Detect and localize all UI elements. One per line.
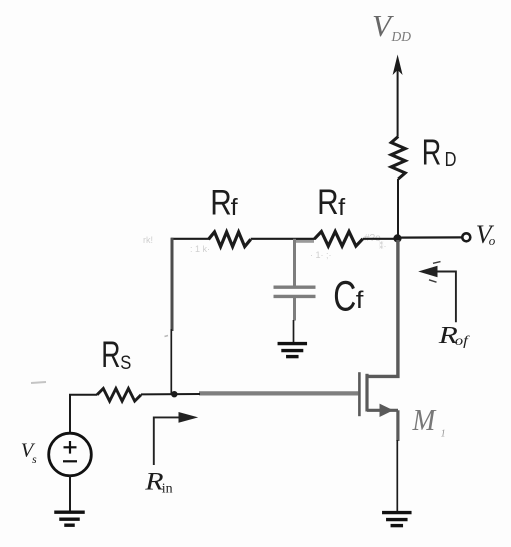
svg-text:· 1· ;·: · 1· ;· bbox=[310, 250, 332, 260]
svg-text:rk!: rk! bbox=[143, 235, 153, 245]
svg-text:R: R bbox=[101, 334, 120, 375]
svg-text:D: D bbox=[445, 147, 457, 170]
svg-text:R: R bbox=[422, 132, 441, 173]
svg-text:C: C bbox=[333, 272, 356, 320]
svg-text:R: R bbox=[144, 467, 164, 495]
svg-text:R: R bbox=[210, 183, 231, 222]
svg-text:f: f bbox=[231, 195, 238, 221]
svg-text:f: f bbox=[338, 195, 345, 221]
svg-text:R: R bbox=[317, 183, 338, 222]
svg-text:DD: DD bbox=[391, 29, 412, 44]
svg-text:S: S bbox=[120, 352, 131, 374]
svg-text:1: 1 bbox=[441, 429, 446, 440]
svg-text:M: M bbox=[412, 404, 437, 438]
svg-text:⁑·: ⁑· bbox=[379, 240, 387, 251]
svg-text:: 1 k·: : 1 k· bbox=[190, 244, 210, 254]
svg-text:o: o bbox=[489, 233, 496, 248]
svg-text:f: f bbox=[356, 288, 365, 314]
svg-text:in: in bbox=[162, 482, 173, 497]
svg-text:s: s bbox=[32, 452, 37, 466]
